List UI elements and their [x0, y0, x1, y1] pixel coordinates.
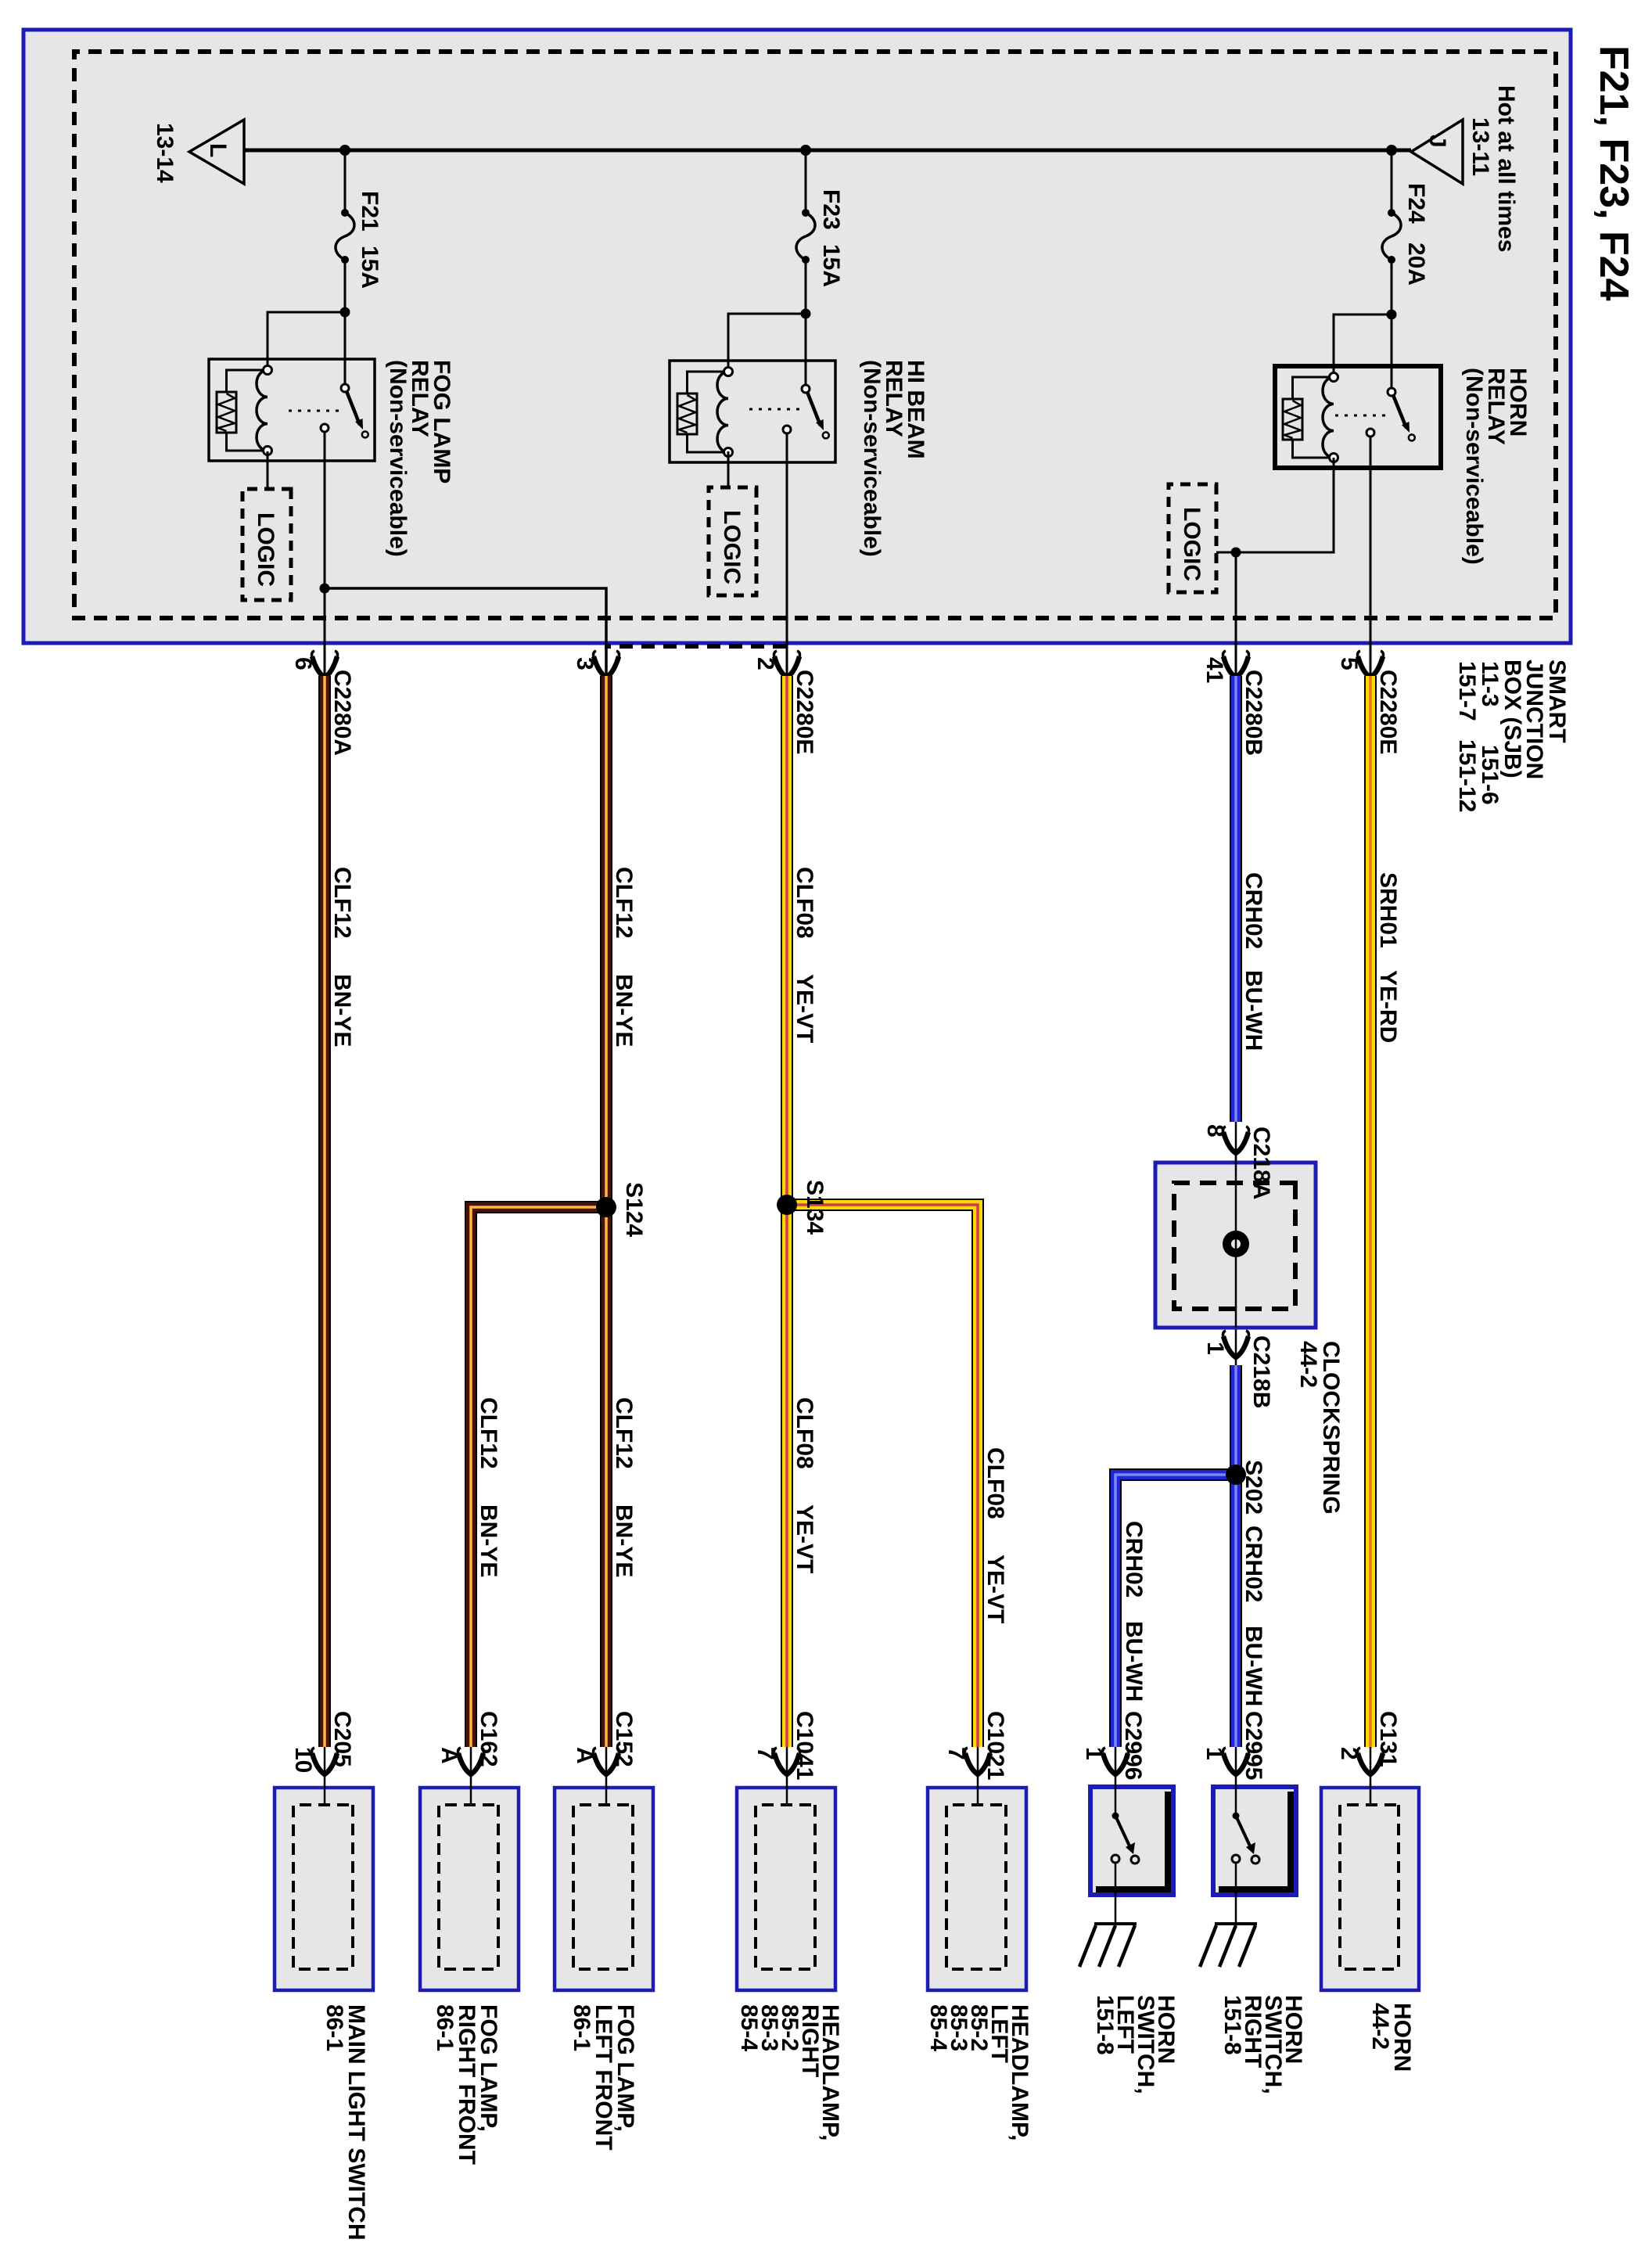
- svg-text:C131: C131: [1375, 1711, 1401, 1767]
- svg-text:J: J: [1424, 135, 1450, 148]
- svg-text:F24: F24: [1403, 183, 1429, 224]
- svg-text:A: A: [572, 1747, 598, 1764]
- svg-text:C152: C152: [611, 1711, 637, 1767]
- svg-text:C1021: C1021: [982, 1711, 1008, 1780]
- svg-text:(Non-serviceable): (Non-serviceable): [1461, 368, 1487, 565]
- svg-text:S202: S202: [1241, 1460, 1266, 1515]
- svg-text:20A: 20A: [1403, 243, 1429, 286]
- svg-text:1: 1: [1201, 1747, 1227, 1760]
- svg-text:1: 1: [1202, 1342, 1228, 1355]
- svg-text:11-3: 11-3: [1477, 661, 1503, 706]
- svg-text:CLF08: CLF08: [792, 1397, 817, 1469]
- svg-text:LOGIC: LOGIC: [1179, 507, 1205, 581]
- svg-text:F21, F23, F24: F21, F23, F24: [1591, 45, 1636, 301]
- svg-text:151-6: 151-6: [1477, 745, 1503, 805]
- svg-text:13-14: 13-14: [152, 123, 178, 183]
- svg-text:C218A: C218A: [1248, 1127, 1274, 1199]
- svg-text:BU-WH: BU-WH: [1241, 970, 1266, 1051]
- svg-text:CRH02: CRH02: [1241, 1526, 1266, 1602]
- svg-text:CLF12: CLF12: [611, 867, 637, 939]
- svg-text:13-11: 13-11: [1467, 117, 1493, 176]
- svg-text:44-2: 44-2: [1295, 1341, 1321, 1388]
- svg-text:L: L: [205, 143, 231, 157]
- svg-text:BU-WH: BU-WH: [1121, 1621, 1147, 1702]
- svg-text:151-8: 151-8: [1219, 1995, 1245, 2055]
- svg-text:C162: C162: [476, 1711, 501, 1767]
- svg-text:15A: 15A: [357, 246, 382, 289]
- svg-text:C2280A: C2280A: [329, 670, 355, 756]
- svg-text:8: 8: [1202, 1124, 1228, 1138]
- svg-text:Hot at all times: Hot at all times: [1493, 85, 1519, 252]
- svg-text:BN-YE: BN-YE: [476, 1504, 501, 1577]
- svg-text:SMART: SMART: [1544, 660, 1570, 743]
- svg-text:86-1: 86-1: [432, 2004, 458, 2051]
- svg-text:CLF12: CLF12: [476, 1397, 501, 1469]
- svg-text:2: 2: [1336, 1747, 1362, 1760]
- svg-text:BN-YE: BN-YE: [611, 974, 637, 1047]
- svg-text:S134: S134: [802, 1180, 828, 1235]
- svg-text:85-4: 85-4: [736, 2004, 762, 2051]
- svg-text:CRH02: CRH02: [1121, 1521, 1147, 1598]
- svg-text:2: 2: [752, 657, 778, 670]
- svg-text:3: 3: [572, 657, 598, 670]
- svg-text:YE-RD: YE-RD: [1375, 970, 1401, 1043]
- svg-text:BN-YE: BN-YE: [329, 974, 355, 1047]
- svg-text:LOGIC: LOGIC: [253, 512, 278, 587]
- svg-text:6: 6: [290, 657, 316, 670]
- svg-text:YE-VT: YE-VT: [792, 1504, 817, 1573]
- svg-text:BN-YE: BN-YE: [611, 1504, 637, 1577]
- svg-text:C205: C205: [329, 1711, 355, 1767]
- svg-text:BOX (SJB): BOX (SJB): [1499, 660, 1525, 778]
- svg-text:(Non-serviceable): (Non-serviceable): [859, 360, 885, 557]
- svg-text:CLF08: CLF08: [792, 867, 817, 939]
- svg-text:LOGIC: LOGIC: [719, 510, 745, 584]
- svg-text:C2280B: C2280B: [1241, 670, 1266, 756]
- svg-text:C2280E: C2280E: [1375, 670, 1401, 754]
- svg-text:CLF08: CLF08: [982, 1447, 1008, 1519]
- svg-text:151-8: 151-8: [1092, 1995, 1118, 2055]
- svg-text:15A: 15A: [818, 244, 844, 287]
- svg-text:(Non-serviceable): (Non-serviceable): [385, 360, 411, 557]
- svg-text:C2996: C2996: [1120, 1711, 1146, 1780]
- svg-text:85-4: 85-4: [925, 2004, 951, 2051]
- svg-text:C2280E: C2280E: [792, 670, 817, 754]
- svg-text:BU-WH: BU-WH: [1241, 1626, 1266, 1706]
- svg-text:151-12: 151-12: [1454, 739, 1480, 812]
- svg-text:151-7: 151-7: [1454, 661, 1480, 721]
- svg-text:C2995: C2995: [1241, 1711, 1266, 1780]
- svg-text:7: 7: [752, 1747, 778, 1760]
- svg-text:44-2: 44-2: [1367, 2003, 1393, 2050]
- svg-text:F21: F21: [357, 191, 382, 232]
- svg-text:86-1: 86-1: [321, 2004, 347, 2051]
- svg-text:5: 5: [1336, 657, 1362, 670]
- svg-text:CLF12: CLF12: [329, 867, 355, 939]
- svg-text:F23: F23: [818, 189, 844, 230]
- svg-text:CLOCKSPRING: CLOCKSPRING: [1318, 1341, 1344, 1515]
- svg-text:1: 1: [1081, 1747, 1107, 1760]
- svg-text:C1041: C1041: [792, 1711, 817, 1780]
- svg-text:YE-VT: YE-VT: [792, 974, 817, 1043]
- svg-text:CRH02: CRH02: [1241, 872, 1266, 949]
- svg-text:C218B: C218B: [1248, 1335, 1274, 1408]
- svg-text:S124: S124: [621, 1182, 647, 1237]
- svg-text:YE-VT: YE-VT: [982, 1555, 1008, 1623]
- svg-text:A: A: [436, 1747, 462, 1764]
- svg-text:CLF12: CLF12: [611, 1397, 637, 1469]
- svg-text:86-1: 86-1: [569, 2004, 594, 2051]
- svg-text:10: 10: [290, 1747, 316, 1773]
- svg-text:7: 7: [943, 1747, 969, 1760]
- svg-text:SRH01: SRH01: [1375, 872, 1401, 948]
- svg-text:41: 41: [1201, 657, 1227, 683]
